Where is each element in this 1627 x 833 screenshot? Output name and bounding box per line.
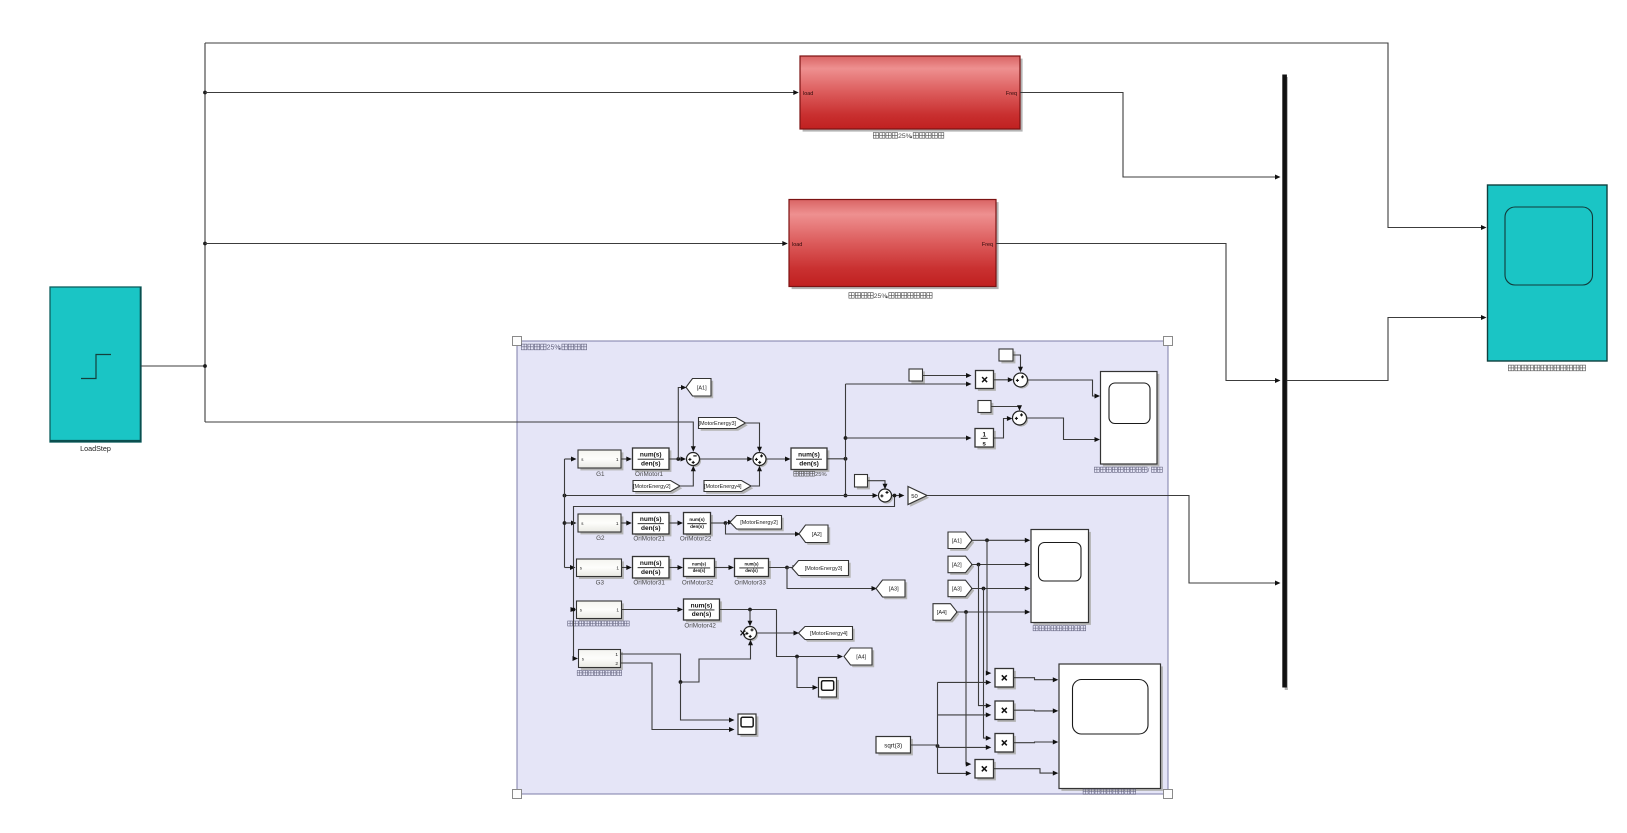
- svg-text:num(s): num(s): [640, 560, 662, 567]
- label of subsystem1: [873, 133, 944, 140]
- wire square D to sum5 top: [868, 481, 888, 490]
- from tag A2: [948, 556, 974, 575]
- svg-text:[MotorEnergy2]: [MotorEnergy2]: [633, 484, 671, 490]
- wire G1 to OriMotor1: [621, 457, 632, 462]
- wire P1 to scope5 in1: [1014, 677, 1059, 682]
- goto tag A4: [844, 648, 874, 667]
- scope block 同步机一次调频输出: [1031, 530, 1091, 625]
- goto tag A2: [799, 525, 830, 545]
- wire product to sum4: [994, 377, 1014, 382]
- wire G2 to OriMotor21: [621, 521, 632, 526]
- product block PX: [976, 371, 996, 391]
- svg-text:Freq: Freq: [982, 242, 993, 248]
- svg-text:[MotorEnergy4]: [MotorEnergy4]: [704, 484, 742, 490]
- svg-text:OriMotor31: OriMotor31: [633, 580, 665, 587]
- sum junction sum3: [741, 627, 759, 642]
- block G3: [577, 559, 624, 586]
- block G2: [578, 514, 623, 542]
- block OriMotor32: [682, 559, 717, 587]
- svg-text:[MotorEnergy4]: [MotorEnergy4]: [810, 631, 848, 637]
- svg-text:num(s): num(s): [691, 602, 713, 609]
- svg-text:[A3]: [A3]: [952, 586, 962, 592]
- block sqrt3: [876, 737, 913, 756]
- wire P4 to scope5 in4: [994, 769, 1059, 776]
- product block P3: [995, 734, 1016, 755]
- svg-text:OriMotor21: OriMotor21: [633, 536, 665, 543]
- product block P2: [995, 701, 1016, 722]
- goto tag MotorEnergy3b: [792, 561, 851, 578]
- wire branch to small scope2: [797, 657, 818, 691]
- svg-text:num(s): num(s): [798, 452, 820, 459]
- block OriMotor33: [734, 559, 771, 587]
- selection handle: [513, 337, 522, 346]
- svg-text:OriMotor1: OriMotor1: [635, 471, 663, 478]
- from tag MotorEnergy3: [698, 418, 747, 431]
- wire P2 to scope5 in2: [1014, 708, 1059, 713]
- wire OriMotor22 out: [711, 520, 734, 525]
- svg-text:num(s): num(s): [640, 452, 662, 459]
- wire square C to sum6 top: [991, 405, 1022, 411]
- svg-text:[MotorEnergy3]: [MotorEnergy3]: [698, 421, 736, 427]
- block OriMotor31: [633, 557, 672, 587]
- from tag MotorEnergy4: [704, 481, 753, 494]
- wire sum5 to gain: [892, 493, 905, 498]
- wire generator feed vertical: [563, 459, 567, 568]
- label of subsystem2: [849, 293, 932, 300]
- svg-text:load: load: [792, 242, 802, 248]
- svg-text:OriMotor42: OriMotor42: [684, 622, 716, 629]
- wire A1 to scope4 in1: [971, 538, 1030, 543]
- wire feed to G2: [565, 521, 577, 526]
- sum junction sum1: [687, 453, 702, 468]
- svg-text:den(s): den(s): [799, 460, 819, 467]
- svg-text:sqrt(3): sqrt(3): [884, 742, 902, 749]
- svg-text:den(s): den(s): [692, 611, 712, 618]
- svg-text:den(s): den(s): [641, 525, 661, 532]
- from tag MotorEnergy2: [633, 481, 682, 494]
- wire feedback2 vertical to control blocks: [572, 496, 895, 662]
- wire MotorEnergy4 to sum2 bottom: [751, 466, 762, 486]
- wire P3 to scope5 in3: [1014, 740, 1059, 745]
- selection handle: [1164, 337, 1173, 346]
- svg-text:[A3]: [A3]: [889, 587, 899, 593]
- mux bar: [1282, 75, 1288, 691]
- wire top route to scope input 1: [205, 43, 1487, 230]
- wire sqrt to P1 in2: [938, 680, 992, 685]
- wire 储能 out1 to sum3 bottom: [621, 640, 754, 684]
- svg-text:den(s): den(s): [693, 568, 706, 573]
- wire feed to G3: [565, 565, 576, 570]
- wire branch up to goto A1: [678, 385, 686, 459]
- wire feedback vertical: [844, 384, 848, 497]
- wire A2 down to P2 in1: [979, 565, 992, 709]
- scope block 同步机一次调频转速功角: [1101, 372, 1160, 467]
- wire MotorEnergy3 to sum2 top: [746, 423, 763, 452]
- svg-text:25%: 25%: [874, 293, 888, 300]
- wire sqrt to P2 in2: [938, 712, 992, 717]
- wire mux output to scope input 2: [1287, 315, 1487, 381]
- svg-text:num(s): num(s): [692, 561, 707, 566]
- label scope6: [1094, 467, 1162, 474]
- wire OriMotor42 out to A4: [777, 610, 844, 660]
- subsystem block 风电渗透25%风电调频低风速: [789, 200, 999, 290]
- wire sum3 to MotorEnergy4 goto: [757, 631, 800, 636]
- wire OriMotor42 out: [720, 608, 777, 612]
- wire square A to sum4 top: [1013, 355, 1023, 372]
- svg-text:OriMotor33: OriMotor33: [734, 580, 766, 587]
- sum junction sum2: [753, 453, 768, 468]
- storage subsystem title: [521, 344, 586, 351]
- product block P1: [995, 669, 1016, 690]
- block integrator: [975, 429, 996, 450]
- wire branch to sum3 top: [748, 610, 753, 627]
- svg-text:G3: G3: [596, 579, 605, 586]
- svg-text:2: 2: [615, 661, 618, 667]
- wire A4 down to P4 in1: [966, 612, 972, 767]
- svg-text:num(s): num(s): [640, 516, 662, 523]
- wire 储能 out2 to scope3 in2: [621, 663, 735, 732]
- selection handle: [513, 790, 522, 799]
- block OriMotor22: [680, 513, 713, 543]
- wire OriMotor21 to OriMotor22: [669, 521, 683, 526]
- svg-text:den(s): den(s): [641, 460, 661, 467]
- svg-text:s: s: [982, 441, 986, 448]
- small scope2: [819, 678, 839, 700]
- svg-text:[MotorEnergy2]: [MotorEnergy2]: [740, 520, 778, 526]
- wire LoadStep trunk: [141, 43, 207, 422]
- wire sqrt3 out: [911, 744, 940, 748]
- constant square A: [999, 349, 1015, 363]
- svg-text:den(s): den(s): [745, 568, 758, 573]
- sum junction sum5: [879, 489, 894, 504]
- scope block 风机是否参与调频对比分析: [1488, 185, 1608, 361]
- svg-text:num(s): num(s): [689, 517, 705, 522]
- wire OriMotor31 to OriMotor32: [669, 565, 683, 570]
- wire integrator to sum6: [994, 416, 1013, 438]
- from tag A4: [933, 604, 959, 623]
- wire square B to product in1: [923, 373, 972, 378]
- wire A2 to scope4 in2: [971, 562, 1030, 567]
- wire A4 to scope4 in4: [956, 610, 1030, 615]
- svg-text:25%: 25%: [547, 344, 561, 351]
- label of right scope: [1508, 365, 1585, 371]
- svg-text:LoadStep: LoadStep: [80, 444, 111, 453]
- constant square C: [978, 401, 993, 415]
- goto tag A1: [686, 379, 713, 399]
- wire sqrt3 vertical: [937, 682, 939, 773]
- wire sum6 to scope6 in2: [1027, 418, 1101, 442]
- svg-text:den(s): den(s): [641, 569, 661, 576]
- wire branch to subsystem1 load input: [205, 90, 799, 95]
- gain block 50: [908, 487, 929, 507]
- wire A3 down to P3 in1: [984, 589, 992, 741]
- wire feed to 高风速 block: [571, 607, 577, 612]
- block 储能调频控制环节: [577, 650, 623, 676]
- wire sum1 to sum2: [700, 457, 753, 462]
- wire G3 to OriMotor31: [622, 565, 632, 570]
- wire A1 down to P1 in1: [986, 540, 992, 675]
- constant square D: [855, 475, 870, 490]
- svg-text:1: 1: [615, 652, 618, 658]
- wire G1 feed: [565, 457, 577, 462]
- svg-text:load: load: [803, 91, 813, 97]
- svg-text:[A4]: [A4]: [937, 610, 947, 616]
- constant square B: [909, 369, 925, 383]
- svg-text:1: 1: [616, 457, 619, 463]
- svg-text:25%: 25%: [898, 133, 912, 140]
- from tag A3: [948, 580, 974, 599]
- goto tag A3: [876, 580, 907, 599]
- svg-text:den(s): den(s): [690, 524, 704, 529]
- wire sum2 to TF block: [766, 457, 791, 462]
- small scope3: [738, 714, 758, 737]
- wire OriMotor1 to sum1: [669, 457, 686, 462]
- goto tag MotorEnergy2: [730, 516, 784, 532]
- wire gain to mux input 3: [927, 496, 1281, 586]
- svg-text:1: 1: [982, 432, 986, 439]
- svg-text:1: 1: [616, 521, 619, 527]
- wire sum4 to scope6 in1: [1028, 380, 1101, 399]
- wire subsystem2 Freq to mux input 2: [996, 244, 1281, 384]
- svg-text:1: 1: [616, 608, 619, 614]
- block OriMotor21: [633, 513, 672, 543]
- svg-text:OriMotor32: OriMotor32: [682, 580, 714, 587]
- scope block 同步机一次调频电流: [1059, 664, 1163, 791]
- wire A3 to scope4 in3: [971, 586, 1030, 591]
- product block P4: [975, 760, 996, 781]
- subsystem block 风电渗透25%风电不调频: [800, 56, 1023, 132]
- wire MotorEnergy2 to sum1 bottom: [680, 466, 696, 486]
- svg-text:[A4]: [A4]: [856, 655, 866, 661]
- from tag A1: [948, 532, 974, 551]
- svg-text:num(s): num(s): [745, 561, 760, 566]
- storage subsystem background 风电渗透25%风储调频: [517, 341, 1168, 794]
- block 风电调频控制环节高风速: [568, 601, 630, 626]
- label scope5: [1083, 789, 1136, 794]
- svg-text:1: 1: [616, 566, 619, 572]
- wire branch into storage subsystem to sum1 top input: [205, 422, 696, 452]
- wire 储能 out1 branch to scope3 in1: [681, 682, 735, 723]
- svg-text:25%: 25%: [815, 472, 827, 478]
- svg-text:[MotorEnergy3]: [MotorEnergy3]: [805, 566, 843, 572]
- wire subsystem1 Freq to mux input 1: [1020, 93, 1281, 180]
- sum junction sum6: [1013, 411, 1029, 427]
- wire sqrt to P3 in2: [938, 745, 992, 750]
- svg-text:[A1]: [A1]: [952, 538, 962, 544]
- label scope4: [1033, 626, 1086, 631]
- svg-text:OriMotor22: OriMotor22: [680, 536, 712, 543]
- selection handle: [1164, 790, 1173, 799]
- svg-text:G2: G2: [596, 535, 605, 542]
- block OriMotor42: [684, 599, 722, 629]
- wire sqrt to P4 in2: [938, 771, 972, 776]
- wire 高风速 to OriMotor42: [622, 607, 684, 612]
- block G1: [578, 450, 623, 478]
- svg-text:[A2]: [A2]: [952, 562, 962, 568]
- wire OriMotor33 out: [769, 565, 799, 570]
- block 风电渗透25% transfer fcn: [791, 448, 829, 478]
- wire OriMotor32 to OriMotor33: [715, 565, 735, 570]
- wire feedback horizontal to sum5: [563, 493, 878, 498]
- svg-text:Freq: Freq: [1006, 91, 1017, 97]
- wire feedback to product in2: [846, 382, 972, 387]
- wire feedback to integrator: [846, 436, 972, 441]
- block OriMotor1: [633, 448, 672, 478]
- sum junction sum4: [1014, 373, 1030, 389]
- svg-text:[A2]: [A2]: [812, 532, 822, 538]
- svg-text:[A1]: [A1]: [697, 385, 707, 391]
- wire branch to goto A2: [726, 523, 801, 537]
- source block LoadStep: [50, 287, 141, 453]
- wire TF output to feedback node: [827, 457, 847, 461]
- svg-text:G1: G1: [596, 471, 605, 478]
- goto tag MotorEnergy4b: [799, 627, 855, 642]
- svg-text:/: /: [1148, 467, 1150, 474]
- svg-text:50: 50: [911, 494, 917, 500]
- wire branch to goto A3: [787, 568, 877, 592]
- wire branch to subsystem2 load input: [205, 241, 788, 246]
